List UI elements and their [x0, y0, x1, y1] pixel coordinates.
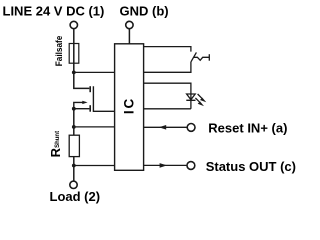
- wire LED return to IC: [144, 108, 191, 110]
- svg-text:GND (b): GND (b): [120, 3, 169, 18]
- terminal LINE (1): [70, 21, 77, 28]
- svg-text:Status OUT (c): Status OUT (c): [206, 159, 296, 174]
- transistor Q1 MOSFET gate: [93, 86, 114, 111]
- wire Reset IN+ with arrow to IC: [144, 126, 187, 128]
- terminal Load (2): [70, 181, 77, 188]
- LED D1 cathode bar: [186, 99, 195, 101]
- thermal element squiggle: [194, 57, 210, 60]
- terminal GND (b): [126, 21, 133, 28]
- wire IC to thermal switch (top): [144, 47, 191, 52]
- transistor Q1 MOSFET channel bottom segment: [89, 105, 91, 112]
- wire shunt bottom to Load terminal: [73, 157, 75, 181]
- node junction MOSFET source: [72, 107, 76, 111]
- svg-text:R: R: [48, 147, 63, 157]
- terminal Reset IN+ (a): [187, 124, 195, 132]
- svg-text:Load (2): Load (2): [50, 189, 101, 204]
- LED D1 triangle: [187, 94, 196, 100]
- svg-text:IC: IC: [121, 97, 136, 114]
- wire IC to LED anode: [144, 83, 191, 94]
- switch thermal blade: [191, 52, 197, 62]
- svg-text:LINE 24 V DC (1): LINE 24 V DC (1): [3, 3, 105, 18]
- node junction shunt top: [72, 125, 76, 129]
- fuse Failsafe: [69, 44, 79, 64]
- op-amp U1 IC block: [115, 44, 144, 171]
- thermal element end bar: [208, 54, 210, 61]
- wire MOSFET substrate with arrow: [74, 102, 83, 108]
- LED emission arrow 1: [198, 94, 202, 98]
- svg-text:Shunt: Shunt: [54, 130, 61, 148]
- wire Status OUT with arrow from IC: [144, 164, 187, 166]
- svg-text:Reset IN+ (a): Reset IN+ (a): [208, 121, 287, 136]
- wire LED cathode through triangle: [190, 94, 192, 109]
- resistor R Shunt: [69, 135, 79, 156]
- node junction fuse/IC: [72, 71, 76, 75]
- wire junction to IC pin (left, top): [74, 71, 115, 73]
- wire GND terminal to IC top: [128, 29, 130, 44]
- terminal Status OUT (c): [187, 162, 195, 170]
- label R Shunt: [48, 130, 63, 157]
- svg-text:Failsafe: Failsafe: [54, 36, 65, 67]
- wire shunt top junction to IC: [74, 126, 115, 128]
- transistor Q1 MOSFET channel top segment: [89, 86, 91, 92]
- LED emission arrow 2: [195, 98, 199, 102]
- wire LINE terminal to MOSFET drain bend: [74, 29, 90, 89]
- wire shunt bottom junction to IC: [74, 165, 115, 167]
- wire thermal switch return to IC: [144, 62, 191, 72]
- wire source junction down to shunt junction: [73, 109, 75, 136]
- node junction shunt bottom: [72, 164, 76, 168]
- wire MOSFET source stub: [74, 108, 90, 110]
